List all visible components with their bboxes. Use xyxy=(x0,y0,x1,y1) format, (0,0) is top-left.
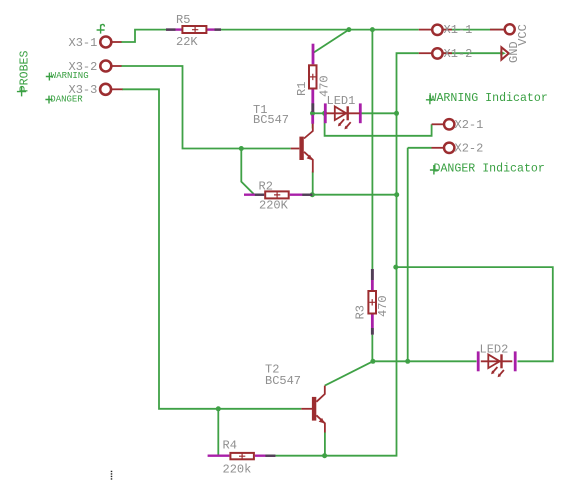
svg-text:470: 470 xyxy=(376,295,390,317)
svg-text:22K: 22K xyxy=(176,35,198,49)
svg-text:DANGER Indicator: DANGER Indicator xyxy=(434,163,545,176)
svg-text:R5: R5 xyxy=(176,13,190,27)
svg-text:BC547: BC547 xyxy=(265,374,301,388)
svg-text:LED2: LED2 xyxy=(480,342,509,356)
svg-text:WARNING Indicator: WARNING Indicator xyxy=(430,92,548,105)
svg-text:R3: R3 xyxy=(354,305,368,319)
svg-text:PROBES: PROBES xyxy=(19,51,32,93)
svg-text:X1-2: X1-2 xyxy=(444,47,473,61)
svg-text:220k: 220k xyxy=(223,463,252,477)
svg-text:DANGER: DANGER xyxy=(50,95,83,105)
svg-text:WARNING: WARNING xyxy=(51,71,89,81)
svg-text:GND: GND xyxy=(507,41,521,63)
svg-text:X1-1: X1-1 xyxy=(444,23,473,37)
svg-text:X2-2: X2-2 xyxy=(455,141,484,155)
svg-text:220K: 220K xyxy=(259,199,289,213)
svg-text:X3-1: X3-1 xyxy=(69,36,98,50)
svg-text:R2: R2 xyxy=(259,179,273,193)
svg-text:BC547: BC547 xyxy=(253,113,289,127)
svg-text:R1: R1 xyxy=(295,82,309,96)
svg-text:R4: R4 xyxy=(223,439,237,453)
svg-text:X2-1: X2-1 xyxy=(455,118,484,132)
svg-text:470: 470 xyxy=(317,75,331,97)
